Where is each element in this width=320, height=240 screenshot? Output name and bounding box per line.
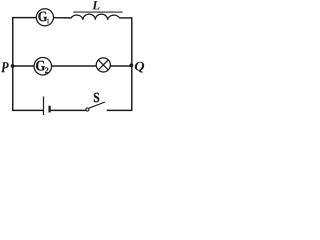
lamp circle bbox=[96, 58, 110, 72]
switch S pivot circle bbox=[86, 108, 89, 111]
wire middle right segment (lamp to Q) bbox=[110, 65, 132, 67]
node Q junction dot bbox=[130, 63, 134, 67]
wire top right segment (coil to corner) bbox=[120, 17, 133, 19]
subscript 1 of G1 bbox=[47, 19, 49, 24]
wire middle left segment (P to G2) bbox=[13, 65, 34, 67]
wire top left segment (corner to G1) bbox=[12, 17, 36, 19]
battery long thin plate bbox=[43, 96, 45, 115]
wire bottom right segment (switch to corner) bbox=[107, 109, 133, 111]
wire bottom middle segment (battery to switch) bbox=[50, 109, 85, 111]
switch S blade bbox=[89, 102, 105, 108]
wire right vertical Q branch bbox=[131, 18, 133, 111]
wire top middle segment (G1 to coil) bbox=[54, 17, 71, 19]
galvanometer G2 circle bbox=[34, 57, 52, 75]
lamp X diagonal 1 bbox=[98, 60, 108, 70]
inductor L coil bbox=[71, 14, 120, 20]
label G of G1 bbox=[38, 12, 47, 22]
label Q bbox=[135, 62, 144, 73]
label L bbox=[92, 1, 99, 9]
wire left vertical P branch bbox=[12, 18, 14, 111]
label P bbox=[1, 62, 9, 72]
wire middle center segment (G2 to lamp) bbox=[52, 65, 97, 67]
subscript 2 of G2 bbox=[45, 67, 48, 73]
inductor iron core bar bbox=[73, 11, 122, 13]
node P junction dot bbox=[11, 64, 15, 68]
battery short thick plate bbox=[48, 106, 50, 113]
lamp X diagonal 2 bbox=[98, 60, 108, 70]
galvanometer G1 circle bbox=[36, 9, 53, 26]
label S bbox=[94, 93, 99, 102]
label G of G2 bbox=[36, 61, 45, 71]
wire bottom left segment (corner to battery) bbox=[12, 109, 43, 111]
